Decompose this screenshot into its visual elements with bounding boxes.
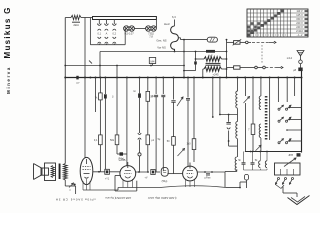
svg-text:0,5 0,07: 0,5 0,07 [124, 32, 134, 36]
svg-text:«Pf0a 5A0n❨ CR 3H: «Pf0a 5A0n❨ CR 3H [55, 198, 96, 202]
svg-text:1k0: 1k0 [186, 143, 191, 146]
svg-text:Minerva: Minerva [6, 66, 11, 94]
svg-text:m14: m14 [287, 56, 293, 60]
svg-text:150 V: 150 V [296, 18, 303, 21]
svg-text:110 V: 110 V [296, 10, 303, 13]
svg-text:240 V: 240 V [296, 26, 303, 29]
svg-text:+245: +245 [119, 158, 126, 162]
svg-text:2×110: 2×110 [296, 30, 303, 33]
svg-text:0,2: 0,2 [113, 32, 117, 35]
svg-text:+V: +V [145, 177, 148, 180]
svg-text:Ges. NS: Ges. NS [156, 38, 166, 42]
svg-text:220 V: 220 V [296, 22, 303, 25]
svg-text:μPaи: μPaи [205, 177, 211, 180]
svg-text:(50μ): (50μ) [162, 180, 168, 183]
svg-text:+245: +245 [212, 73, 219, 77]
svg-text:−1−2: −1−2 [297, 34, 303, 37]
svg-text:JP8: JP8 [288, 153, 293, 157]
svg-text:6,3: 6,3 [172, 15, 176, 19]
svg-text:Heiz: Heiz [164, 22, 170, 26]
svg-text:M4: M4 [150, 59, 154, 63]
svg-text:Musikus G: Musikus G [3, 6, 12, 58]
svg-text:+Y1: +Y1 [105, 178, 110, 181]
svg-text:A08 AC8S/❨0μ a/u: A08 AC8S/❨0μ a/u [105, 196, 131, 200]
svg-text:125 V: 125 V [296, 14, 303, 17]
svg-text:0,1: 0,1 [98, 32, 102, 35]
svg-text:2kΩ: 2kΩ [73, 23, 79, 27]
svg-text:7,8: 7,8 [149, 34, 153, 38]
svg-text:❨A08 A28U 30μ A/LV: ❨A08 A28U 30μ A/LV [148, 196, 177, 200]
svg-text:0,1: 0,1 [94, 139, 98, 142]
svg-text:Vor NS: Vor NS [157, 46, 166, 50]
